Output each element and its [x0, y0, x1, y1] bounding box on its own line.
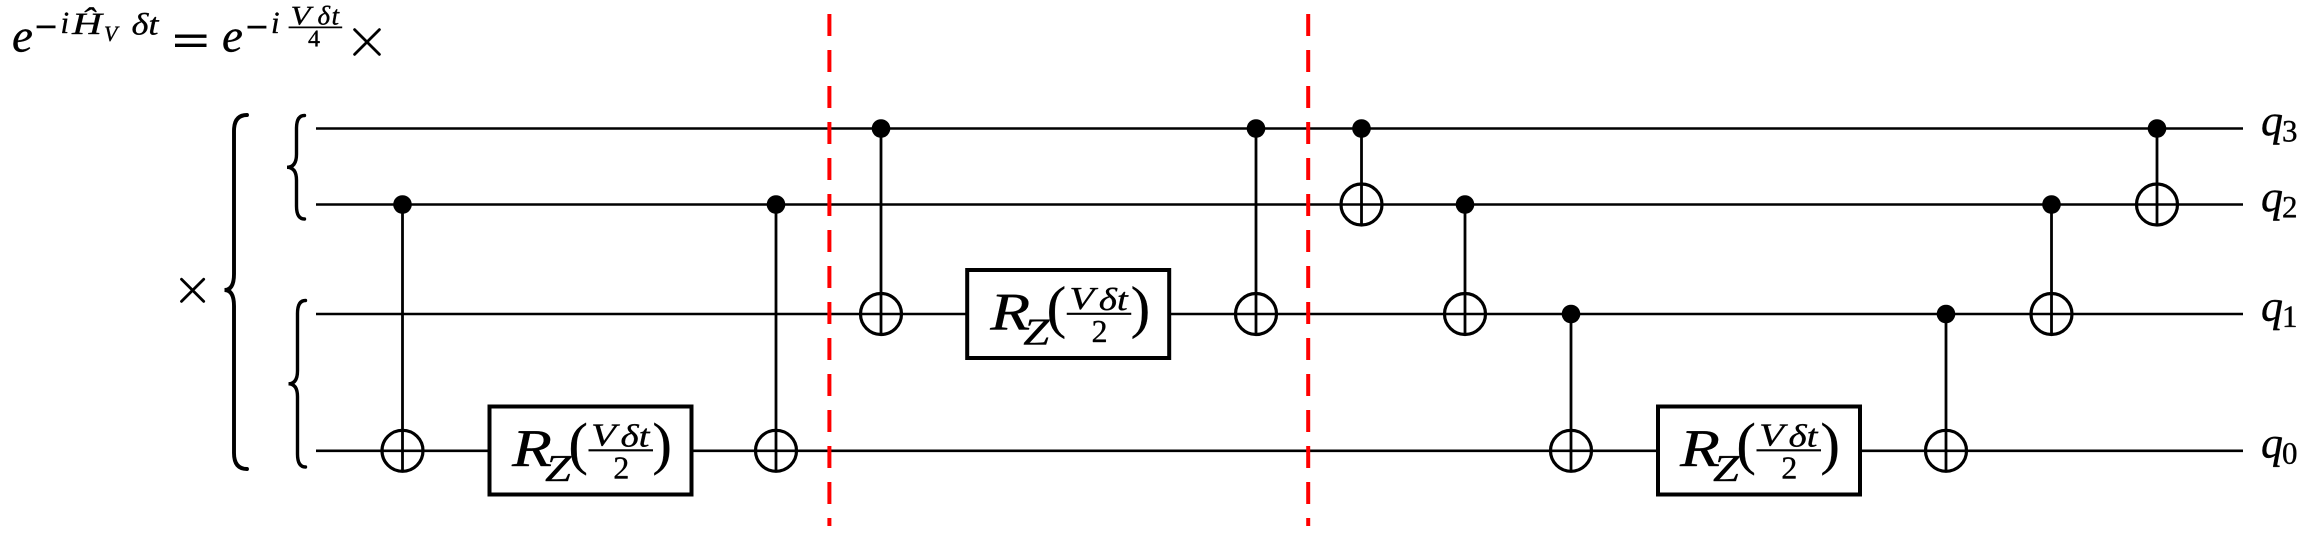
- gate RZ label numerator V (RZ2): [1071, 288, 1098, 309]
- equation second superscript i: [273, 12, 279, 33]
- gate RZ label close paren (RZ3): [1822, 423, 1837, 476]
- wire q1: [316, 313, 2243, 316]
- gate RZ label numerator V (RZ3): [1761, 425, 1788, 446]
- CNOT 6 target circle: [1445, 294, 1486, 335]
- CNOT 4 target circle: [1236, 294, 1277, 335]
- CNOT 8 control dot: [1937, 305, 1956, 324]
- CNOT 1 target circle: [382, 430, 423, 471]
- CNOT 9 control q-line vertical connector: [2050, 205, 2053, 335]
- label q1 letter q: [2262, 300, 2282, 330]
- wire q0: [316, 449, 2243, 452]
- gate RZ label denominator 2 (RZ1): [615, 457, 628, 478]
- red dashed barrier line 1: [827, 14, 831, 526]
- equation exponent fraction bar: [289, 26, 343, 28]
- equation superscript H hat: [72, 7, 104, 34]
- CNOT 5 target circle: [1341, 184, 1382, 225]
- wire q3: [316, 127, 2243, 130]
- gate RZ label fraction bar (RZ2): [1067, 313, 1132, 315]
- small curly brace spanning q1 q0: [289, 301, 306, 468]
- label q3 subscript digit: [2283, 121, 2296, 142]
- gate RZ label Z (RZ2): [1024, 320, 1050, 345]
- gate RZ label open paren (RZ3): [1739, 423, 1754, 476]
- gate RZ label open paren (RZ1): [571, 423, 586, 476]
- CNOT 4 control q-line vertical connector: [1255, 129, 1258, 335]
- label q2 subscript digit: [2283, 197, 2295, 218]
- gate RZ1 box on q0: [490, 407, 692, 495]
- CNOT 5 control q-line vertical connector: [1360, 129, 1363, 226]
- CNOT 3 target circle: [861, 294, 902, 335]
- gate RZ label numerator V (RZ1): [593, 425, 620, 446]
- equation times sign: [355, 30, 380, 55]
- CNOT 7 control dot: [1562, 305, 1581, 324]
- wire q2: [316, 203, 2243, 206]
- label q0 subscript digit: [2283, 443, 2296, 464]
- label q3 letter q: [2262, 114, 2282, 144]
- equation exponent fraction numerator delta t: [318, 6, 339, 25]
- CNOT 4 control dot: [1247, 119, 1266, 138]
- equation superscript delta t: [133, 13, 160, 35]
- CNOT 7 control q-line vertical connector: [1570, 314, 1573, 472]
- equation superscript i: [62, 12, 68, 33]
- CNOT 1 control dot: [393, 195, 412, 214]
- small curly brace spanning q3 q2: [287, 116, 305, 220]
- equation exponent fraction denominator 4: [308, 31, 319, 47]
- CNOT 9 target circle: [2031, 294, 2072, 335]
- equation superscript minus: [37, 25, 56, 28]
- CNOT 3 control dot: [872, 119, 891, 138]
- gate RZ label R (RZ1): [512, 431, 551, 466]
- CNOT 10 target circle: [2137, 184, 2178, 225]
- label q1 subscript digit: [2285, 306, 2296, 326]
- gate RZ label R (RZ2): [990, 295, 1029, 330]
- equation subscript V of H: [105, 27, 119, 42]
- equation exponent fraction numerator V: [292, 7, 313, 25]
- CNOT 6 control q-line vertical connector: [1464, 205, 1467, 335]
- gate RZ label numerator delta t (RZ1): [622, 424, 651, 447]
- gate RZ label R (RZ3): [1680, 431, 1719, 466]
- gate RZ label numerator delta t (RZ3): [1790, 424, 1819, 447]
- gate RZ3 box on q0: [1658, 407, 1860, 495]
- CNOT 6 control dot: [1456, 195, 1475, 214]
- gate RZ label Z (RZ1): [546, 456, 572, 481]
- equation second superscript minus: [248, 26, 267, 29]
- gate RZ label Z (RZ3): [1714, 456, 1740, 481]
- label q0 letter q: [2262, 437, 2282, 467]
- CNOT 9 control dot: [2042, 195, 2061, 214]
- big curly brace spanning all four qubit wires: [225, 115, 248, 469]
- equation second factor base e: [223, 29, 241, 52]
- gate RZ label fraction bar (RZ3): [1757, 449, 1822, 451]
- CNOT 10 control q-line vertical connector: [2156, 129, 2159, 226]
- gate RZ label close paren (RZ2): [1133, 286, 1148, 339]
- label q2 letter q: [2262, 190, 2282, 220]
- CNOT 3 control q-line vertical connector: [880, 129, 883, 335]
- gate RZ label close paren (RZ1): [654, 423, 669, 476]
- gate RZ label denominator 2 (RZ2): [1093, 321, 1106, 342]
- CNOT 2 control dot: [767, 195, 786, 214]
- CNOT 8 target circle: [1926, 430, 1967, 471]
- gate RZ2 box on q1: [967, 270, 1169, 358]
- gate RZ label denominator 2 (RZ3): [1783, 457, 1796, 478]
- times sign left of big brace: [182, 279, 204, 301]
- CNOT 5 control dot: [1352, 119, 1371, 138]
- CNOT 10 control dot: [2148, 119, 2167, 138]
- CNOT 7 target circle: [1551, 430, 1592, 471]
- CNOT 1 control q-line vertical connector: [401, 205, 404, 472]
- CNOT 2 target circle: [756, 430, 797, 471]
- gate RZ label fraction bar (RZ1): [589, 449, 654, 451]
- CNOT 2 control q-line vertical connector: [775, 205, 778, 472]
- gate RZ label open paren (RZ2): [1049, 286, 1064, 339]
- CNOT 8 control q-line vertical connector: [1945, 314, 1948, 472]
- equation first factor base e: [13, 29, 31, 52]
- equation equals sign: [175, 36, 207, 45]
- red dashed barrier line 2: [1306, 14, 1310, 526]
- gate RZ label numerator delta t (RZ2): [1100, 288, 1129, 311]
